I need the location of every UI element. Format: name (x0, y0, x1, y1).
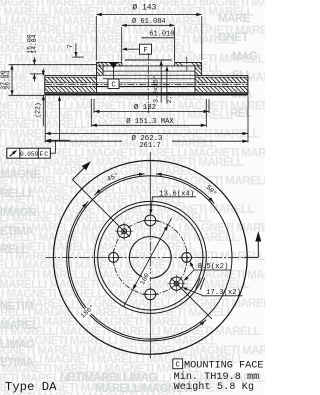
svg-text:MAGNE: MAGNE (0, 169, 41, 181)
svg-text:7: 7 (67, 44, 75, 48)
leader 2.5 (165, 66, 173, 103)
rim hatch top-left (45, 77, 97, 83)
bolt hole centerline right (186, 57, 188, 72)
svg-text:MAG: MAG (232, 51, 258, 63)
dimension D262.3 (45, 96, 248, 143)
datum C triangle (109, 62, 117, 79)
hat flange right (hatched) (175, 62, 202, 66)
center bore circle (129, 237, 171, 279)
label 13.6(x4) (149, 190, 196, 214)
svg-text:Ø 61.084: Ø 61.084 (132, 17, 166, 26)
right section arrow (244, 231, 261, 257)
label 8.5(x2) (184, 261, 231, 280)
svg-text:Ø 143: Ø 143 (132, 3, 156, 12)
bolt hole S (142, 286, 159, 303)
angular dimension arcs (67, 174, 215, 341)
bolt circle (dash-dot) (113, 220, 187, 294)
chamfer leader 3.0x45 (151, 60, 163, 102)
rim hatch bottom-left (45, 86, 97, 92)
svg-text:MARE: MARE (218, 13, 251, 25)
hat wall right (hatched) (195, 62, 202, 75)
bolt hole E (179, 250, 195, 266)
hub circle D143 (98, 205, 203, 310)
mounting face note (173, 359, 264, 371)
svg-text:GNET: GNET (218, 32, 248, 44)
svg-text:ETIMA: ETIMA (0, 357, 33, 369)
type label (5, 380, 57, 394)
svg-text:8.5(x2): 8.5(x2) (198, 263, 229, 271)
dimension D151.3 MAX (91, 99, 206, 127)
hat interior edge lines (97, 71, 196, 87)
dimension D132 (94, 99, 209, 113)
svg-text:C: C (175, 362, 180, 370)
rim inner edges (97, 76, 196, 94)
vent centerline (45, 84, 248, 86)
svg-text:NETIM: NETIM (0, 301, 33, 313)
svg-text:(22): (22) (35, 102, 42, 117)
pin hole SE (168, 275, 186, 293)
svg-text:C: C (111, 81, 116, 89)
hat flange left (hatched) (97, 62, 122, 66)
arc arrowheads (82, 173, 213, 326)
runout leader (46, 96, 70, 153)
svg-text:MAREL: MAREL (0, 320, 39, 332)
dimension 100 (bolt circle) (124, 218, 172, 306)
svg-text:Ø 151.3 MAX: Ø 151.3 MAX (126, 117, 174, 126)
dimension (22) (35, 69, 45, 127)
runout feature control frame (7, 148, 51, 158)
label 45deg (106, 171, 121, 184)
rim hatch bottom-right (195, 86, 248, 92)
rim hatch top-right (195, 77, 248, 83)
dimension D143 (96, 3, 202, 60)
hat wall left (hatched) (97, 62, 104, 75)
mounting face line (97, 65, 202, 67)
svg-text:36.84: 36.84 (4, 70, 11, 89)
svg-text:MOUNTING FACE: MOUNTING FACE (184, 360, 263, 371)
rim strip boundary lines (45, 77, 248, 92)
svg-text:261.7: 261.7 (139, 142, 161, 150)
svg-text:LIMAG: LIMAG (0, 339, 35, 351)
svg-text:Type DA: Type DA (5, 380, 57, 394)
label 50deg (204, 183, 219, 198)
dimension D61.084/61.010 (122, 17, 175, 62)
outer circle (53, 161, 247, 355)
axis centerline (147, 53, 149, 115)
min thickness note (174, 371, 260, 383)
pin hole NW (115, 222, 133, 240)
svg-text:IMAGN: IMAGN (0, 207, 36, 219)
braking band edge circle (69, 176, 232, 339)
bolt hole W (106, 250, 122, 266)
dimension 261.7 (45, 140, 248, 151)
svg-text:0.050: 0.050 (20, 151, 38, 158)
svg-text:Ø 132: Ø 132 (134, 103, 156, 112)
svg-text:F: F (143, 47, 147, 55)
label 180deg (78, 302, 98, 321)
svg-text:61.010: 61.010 (149, 30, 174, 38)
svg-text:Weight 5.8 Kg: Weight 5.8 Kg (174, 381, 255, 393)
dimension 7 (67, 44, 84, 58)
dimension 37.00/36.84 (0, 65, 96, 96)
bore chamfer edge (125, 59, 172, 61)
svg-text:RELLI: RELLI (0, 188, 31, 200)
weight note (174, 381, 255, 393)
svg-text:RELL: RELL (0, 244, 29, 256)
dimension 15.00/14.84 (27, 34, 45, 81)
svg-text:2.5: 2.5 (166, 92, 173, 104)
hub circle D151.3 (94, 201, 206, 313)
vertical centerline (149, 152, 151, 358)
disc outer edges (45, 76, 248, 95)
NW radial and section arrow (73, 161, 130, 237)
SE radial (171, 278, 212, 319)
svg-text:FC: FC (39, 151, 49, 158)
svg-text:REL: REL (230, 108, 252, 120)
rim top lines (45, 75, 248, 77)
svg-text:14.84: 14.84 (31, 34, 38, 53)
disc bottom lines (45, 93, 248, 94)
label 17.3(x2) (182, 278, 242, 297)
datum C box (108, 79, 119, 89)
svg-text:ETIMA: ETIMA (0, 226, 33, 238)
horizontal centerline (45, 256, 243, 258)
datum F box (122, 44, 152, 55)
bolt hole N (142, 212, 159, 229)
svg-text:3.0x45°: 3.0x45° (151, 75, 159, 103)
